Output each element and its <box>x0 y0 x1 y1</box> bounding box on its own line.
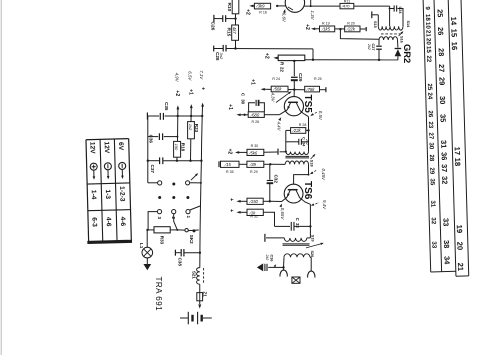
capacitor C27 <box>376 45 382 47</box>
svg-text:33: 33 <box>441 218 450 226</box>
transistor TS4 (cut at top edge) <box>285 0 304 12</box>
annotation voltage 6,6V with arrow <box>283 9 286 13</box>
svg-text:30: 30 <box>428 142 435 150</box>
svg-text:⁄39: ⁄39 <box>249 162 257 167</box>
capacitor C26 <box>226 18 236 20</box>
fuse Z1 <box>197 293 203 301</box>
wire <box>190 139 192 161</box>
annotation voltage 0,5V with arrow <box>312 112 317 115</box>
resistor R33 <box>154 227 170 233</box>
svg-text:2k2: 2k2 <box>265 254 269 261</box>
wire <box>293 61 295 76</box>
resistor R11 <box>340 3 354 8</box>
tuning arrow <box>399 32 403 36</box>
svg-text:+2: +2 <box>227 149 233 155</box>
svg-text:31: 31 <box>429 200 436 208</box>
svg-text:⁄56k: ⁄56k <box>272 87 282 92</box>
node junction S18 left/bias <box>269 163 271 165</box>
wire <box>354 5 390 7</box>
svg-text:C26: C26 <box>210 22 216 31</box>
wire <box>199 301 201 304</box>
resistor R30 <box>247 149 264 155</box>
terminal stub with bar <box>372 14 378 16</box>
wire <box>270 163 285 165</box>
svg-text:R11: R11 <box>344 0 350 3</box>
svg-text:R 16: R 16 <box>259 10 267 14</box>
wire <box>308 117 310 152</box>
svg-text:32: 32 <box>440 176 449 184</box>
coil S14 (right half of primary) <box>390 26 403 30</box>
svg-text:4,9V: 4,9V <box>175 73 180 83</box>
svg-text:L1: L1 <box>139 243 144 249</box>
wire <box>294 89 304 91</box>
svg-text:⁄22k: ⁄22k <box>291 128 301 133</box>
resistor R10 <box>232 0 239 14</box>
svg-text:+2: +2 <box>244 9 250 15</box>
svg-text:6-3: 6-3 <box>90 217 97 227</box>
svg-text:1k2: 1k2 <box>188 124 193 131</box>
wire <box>263 88 272 90</box>
svg-text:31: 31 <box>439 140 448 148</box>
node <box>176 160 178 162</box>
svg-text:S16: S16 <box>399 36 403 43</box>
node <box>176 136 178 138</box>
svg-text:R 25: R 25 <box>314 77 322 81</box>
svg-text:C24: C24 <box>398 7 402 15</box>
node <box>147 160 149 162</box>
svg-text:17: 17 <box>453 147 462 156</box>
node <box>176 229 178 231</box>
voltage table <box>85 139 132 244</box>
wire from R19/R20 junction to S16 <box>340 29 379 39</box>
svg-text:12V: 12V <box>88 142 95 155</box>
wire <box>235 40 237 48</box>
resistor R23 <box>188 122 195 139</box>
svg-text:C37: C37 <box>150 165 155 174</box>
svg-text:34: 34 <box>442 256 451 265</box>
ground (chassis) <box>257 263 263 271</box>
svg-text:37: 37 <box>440 164 449 172</box>
svg-text:C36: C36 <box>269 255 273 262</box>
svg-text:R 19: R 19 <box>322 22 330 26</box>
contact circle row C 2 <box>172 210 176 214</box>
resistor R20 <box>345 26 360 32</box>
node <box>199 252 201 254</box>
wire S16 right end <box>397 40 399 48</box>
svg-text:R18: R18 <box>181 143 186 152</box>
svg-text:+: + <box>228 209 234 212</box>
svg-text:0,5V: 0,5V <box>318 111 323 121</box>
wire to terminal <box>360 28 366 30</box>
svg-text:32: 32 <box>430 217 437 225</box>
svg-text:C29: C29 <box>298 73 303 82</box>
wire <box>286 129 291 131</box>
capacitor C38 <box>174 250 176 256</box>
annotation voltage 4,3V with arrow <box>276 92 290 102</box>
svg-text:30: 30 <box>240 99 245 104</box>
svg-text:20: 20 <box>425 38 432 46</box>
wire contact 2 down <box>174 214 178 230</box>
transistor TS5 <box>284 97 303 116</box>
svg-text:C: C <box>302 137 306 140</box>
svg-text:21: 21 <box>456 263 465 272</box>
resistor R29 <box>247 161 264 167</box>
svg-text:TS5: TS5 <box>302 95 313 114</box>
resistor R19 <box>320 26 335 32</box>
svg-text:1-2-3: 1-2-3 <box>118 186 125 202</box>
contact dot row B 1 <box>158 196 161 199</box>
svg-text:S15: S15 <box>373 21 377 28</box>
svg-text:28: 28 <box>428 154 435 162</box>
resistor R31 <box>247 198 263 204</box>
terminal bar <box>218 161 220 167</box>
svg-text:R15: R15 <box>225 28 231 37</box>
svg-text:25: 25 <box>426 83 433 91</box>
svg-text:35: 35 <box>438 114 447 122</box>
svg-text:36: 36 <box>439 152 448 160</box>
svg-text:6V: 6V <box>117 142 124 151</box>
wire <box>148 182 158 184</box>
svg-text:4,3V: 4,3V <box>271 93 276 103</box>
wire <box>176 157 178 161</box>
wire <box>304 5 340 7</box>
wire contact 3 down <box>148 212 158 230</box>
switch SK2 lever <box>188 229 199 232</box>
wire <box>307 237 311 239</box>
diode GR2 <box>395 49 402 56</box>
svg-text:+1: +1 <box>187 89 193 95</box>
svg-text:18: 18 <box>453 158 462 167</box>
coil S17 (primary) <box>286 152 309 155</box>
wire <box>263 212 274 226</box>
contact dot row B 3 <box>186 196 189 199</box>
svg-text:⁄3k9: ⁄3k9 <box>255 4 265 9</box>
svg-text:21: 21 <box>424 30 431 38</box>
svg-text:S18: S18 <box>310 160 314 167</box>
svg-text:C35: C35 <box>164 102 169 111</box>
svg-text:38: 38 <box>442 240 451 248</box>
wire <box>238 211 247 213</box>
node TS4 base <box>276 5 278 7</box>
svg-text:R 32: R 32 <box>250 215 258 219</box>
node TS5 base <box>293 88 295 90</box>
node junction R10/C26 <box>234 17 236 19</box>
wire <box>237 151 247 153</box>
node junction R19/R20 <box>339 28 341 30</box>
coil S20 (secondary) <box>284 254 310 258</box>
terminal bar <box>325 87 327 92</box>
node junction R15/AGC line <box>234 47 236 49</box>
coil S16 (secondary) <box>379 37 398 40</box>
capacitor C29 (electrolytic) <box>291 76 298 78</box>
svg-text:C: C <box>295 218 300 221</box>
wire primary left end up <box>377 15 379 26</box>
wire TS5 collector lead <box>300 111 308 117</box>
wire to terminal <box>320 89 326 91</box>
wire <box>313 28 320 30</box>
svg-text:15: 15 <box>425 46 432 54</box>
capacitor C30 (parallel with R26, electrolytic) <box>249 103 255 112</box>
svg-text:R 29: R 29 <box>250 170 258 174</box>
tuning arrow <box>306 243 323 248</box>
wire <box>378 49 380 60</box>
svg-text:0,65V: 0,65V <box>280 208 285 221</box>
wire TS6 collector lead <box>300 198 311 204</box>
wire <box>148 229 155 231</box>
svg-text:2k2: 2k2 <box>367 43 371 50</box>
wire from R11 to transformer <box>389 6 391 26</box>
resistor R15 <box>232 25 239 40</box>
svg-text:TS6: TS6 <box>302 181 313 200</box>
wire <box>309 204 311 238</box>
svg-text:S19: S19 <box>310 235 314 242</box>
loudspeaker connector <box>292 277 300 283</box>
svg-text:R 24: R 24 <box>272 77 280 81</box>
wire <box>264 163 271 165</box>
node <box>200 182 202 184</box>
svg-text:29: 29 <box>428 167 435 175</box>
resistor R16 <box>251 5 254 7</box>
svg-text:16: 16 <box>450 42 459 51</box>
svg-text:29: 29 <box>437 77 446 85</box>
node R22 wiper <box>293 60 295 62</box>
annotation voltage 4,4V with arrow <box>278 117 282 121</box>
contact dot row A middle <box>172 183 175 186</box>
wire <box>288 89 294 91</box>
svg-text:18: 18 <box>424 14 431 22</box>
wire AGC line <box>226 48 313 50</box>
wire <box>293 81 295 90</box>
wiper arrow <box>191 174 197 180</box>
svg-text:14: 14 <box>449 17 458 26</box>
resistor R24 <box>271 86 288 92</box>
svg-text:C36: C36 <box>149 135 154 144</box>
svg-text:GR2: GR2 <box>402 44 413 63</box>
svg-text:⁄680: ⁄680 <box>250 112 260 117</box>
battery <box>180 317 188 319</box>
svg-text:15: 15 <box>449 29 458 38</box>
node junction R28/collector <box>307 129 309 131</box>
node junction at detector line <box>312 59 314 61</box>
wire <box>310 256 311 258</box>
resistor R28 <box>291 128 306 134</box>
wire <box>312 49 314 60</box>
terminal bar <box>365 27 367 31</box>
core (dashed) of IF transformer <box>381 33 401 35</box>
bus line with C37 <box>148 160 159 162</box>
supply rail +1 (6,5V) <box>190 104 193 108</box>
contact circle row A left <box>158 181 162 185</box>
svg-text:SK2: SK2 <box>189 235 194 244</box>
terminal bar <box>264 234 266 242</box>
wire <box>245 114 249 116</box>
potentiometer R22 <box>278 55 305 61</box>
svg-text:S14: S14 <box>406 21 410 29</box>
svg-text:27: 27 <box>427 132 434 140</box>
wire <box>238 200 247 202</box>
terminal stub with bar <box>280 151 286 153</box>
svg-text:3n2: 3n2 <box>219 53 224 60</box>
svg-text:R33: R33 <box>159 236 164 245</box>
speaker hook contact left <box>280 270 287 277</box>
svg-text:Z1: Z1 <box>202 292 207 298</box>
svg-text:9,4V: 9,4V <box>322 200 327 210</box>
svg-text:2k2: 2k2 <box>305 138 309 145</box>
svg-text:⁄1k5: ⁄1k5 <box>321 27 331 32</box>
supply rail +2 (4,9V) <box>177 105 180 109</box>
svg-text:1-4: 1-4 <box>90 190 97 200</box>
annotation voltage 9,4V with arrow <box>312 203 319 206</box>
wire TS4 base lead <box>277 5 285 7</box>
svg-text:6,5V: 6,5V <box>187 71 192 81</box>
capacitor C24 <box>393 5 395 11</box>
contact circle row C 1 <box>186 210 190 214</box>
wire <box>335 28 345 30</box>
core of driver transformer <box>286 155 310 157</box>
wire <box>1 0 2 355</box>
coil S15 (left half of primary) <box>378 26 390 30</box>
transistor TS6 <box>284 184 303 203</box>
node junction S17 left <box>285 151 287 153</box>
node TS6 base <box>308 174 310 176</box>
svg-text:4-6: 4-6 <box>119 217 126 227</box>
svg-text:4,4V: 4,4V <box>276 122 281 132</box>
node junction S20/ground branch <box>282 266 284 268</box>
wire stub from top edge <box>310 0 312 6</box>
svg-text:R10: R10 <box>226 3 232 12</box>
wire left rail <box>147 116 149 183</box>
svg-text:4-6: 4-6 <box>105 217 112 227</box>
resistor R25 <box>305 86 320 92</box>
capacitor C33 <box>275 225 291 227</box>
svg-text:+2: +2 <box>264 53 270 59</box>
svg-text:+2: +2 <box>304 24 310 30</box>
core (dashed) <box>203 268 205 284</box>
svg-text:TRA 691: TRA 691 <box>154 277 163 312</box>
lamp L1 <box>146 230 148 248</box>
svg-text:S20: S20 <box>310 251 314 258</box>
feed line with C36 <box>148 136 158 138</box>
wire <box>238 114 244 116</box>
svg-text:33: 33 <box>430 241 437 249</box>
wire primary right end up <box>398 9 403 27</box>
contact dot row B 2 <box>172 196 175 199</box>
svg-text:R 28: R 28 <box>299 123 307 127</box>
node <box>177 115 179 117</box>
svg-text:+2: +2 <box>174 90 180 96</box>
wire TS5 emitter lead <box>279 110 287 115</box>
svg-text:35: 35 <box>429 178 436 186</box>
svg-text:19: 19 <box>455 225 464 234</box>
svg-text:C38: C38 <box>178 258 183 267</box>
svg-text:3: 3 <box>157 217 162 220</box>
svg-text:1-3: 1-3 <box>104 189 111 199</box>
wire <box>285 130 287 151</box>
wire contact 1 to rail <box>190 206 201 210</box>
coil S19 (primary) <box>284 238 307 242</box>
svg-text:22: 22 <box>425 55 432 63</box>
svg-text:6,6V: 6,6V <box>281 13 286 23</box>
coil S18 (secondary) <box>285 161 308 164</box>
resistor R35 <box>221 161 240 167</box>
node junction C24/centre tap <box>389 8 391 10</box>
svg-text:⁄22k: ⁄22k <box>346 27 356 32</box>
wire <box>283 257 286 267</box>
svg-text:⁄5k6: ⁄5k6 <box>248 150 258 155</box>
capacitor C28 <box>213 46 215 52</box>
svg-text:12V: 12V <box>103 141 110 154</box>
wire <box>264 114 279 116</box>
svg-text:26: 26 <box>436 27 445 35</box>
contact circle row A right <box>186 181 190 185</box>
svg-text:26: 26 <box>427 110 434 118</box>
svg-text:⁄15: ⁄15 <box>224 162 232 167</box>
speaker hook contact right <box>308 271 315 278</box>
node <box>190 115 192 117</box>
capacitor C36 to ground <box>268 266 283 268</box>
svg-text:20: 20 <box>455 242 464 251</box>
svg-text:C32: C32 <box>274 175 279 184</box>
core of output transformer <box>283 243 310 245</box>
svg-text:4k7: 4k7 <box>232 27 237 34</box>
svg-text:R 20: R 20 <box>347 22 355 26</box>
resistor R18 <box>174 141 181 157</box>
wire <box>235 14 237 25</box>
wire <box>239 163 247 165</box>
contact circle row C 3 <box>157 210 161 214</box>
node <box>189 160 191 162</box>
wire <box>266 237 284 239</box>
supply rail + (7,1V) <box>201 103 204 107</box>
tuning arrow <box>311 154 315 159</box>
svg-text:R 26: R 26 <box>252 120 260 124</box>
wire <box>190 182 201 184</box>
svg-text:⁄78k: ⁄78k <box>305 87 315 92</box>
svg-text:30: 30 <box>438 96 447 104</box>
wire <box>263 200 270 202</box>
svg-text:R 35: R 35 <box>226 170 234 174</box>
svg-text:+1: +1 <box>227 104 233 110</box>
svg-text:+1: +1 <box>250 79 256 85</box>
svg-text:⁄470: ⁄470 <box>340 4 350 9</box>
component index strips <box>423 0 469 277</box>
svg-text:23: 23 <box>427 121 434 129</box>
wire S16 left end down <box>378 40 380 45</box>
node junction C32/R31/emitter <box>269 200 271 202</box>
svg-text:+: + <box>228 198 234 201</box>
svg-text:24: 24 <box>426 92 433 100</box>
svg-text:28: 28 <box>437 48 446 56</box>
resistor R26 <box>248 112 264 118</box>
wire <box>199 284 201 292</box>
svg-text:27: 27 <box>437 64 446 72</box>
svg-text:10: 10 <box>424 22 431 30</box>
ground (chassis) below lamp <box>146 258 148 264</box>
wire TS5 base lead <box>293 90 295 97</box>
wire TS6 base path <box>294 164 309 184</box>
wire detector AF line <box>305 59 398 61</box>
wire <box>264 151 278 153</box>
feed line with C35 <box>146 113 148 120</box>
node junction R26/C30 <box>243 114 245 116</box>
node junction R33 left <box>146 229 148 231</box>
svg-text:S21: S21 <box>192 271 197 279</box>
svg-text:1: 1 <box>186 216 191 219</box>
wire <box>306 129 309 131</box>
svg-text:1,3V: 1,3V <box>310 11 315 21</box>
svg-text:R23: R23 <box>194 124 199 133</box>
annotation voltage 0,45V with arrow <box>311 170 316 173</box>
